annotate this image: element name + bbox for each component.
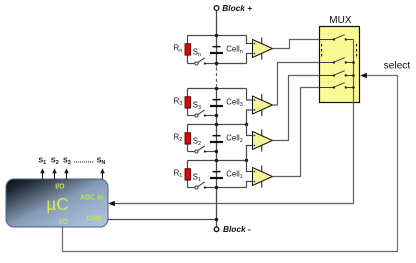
battery cell Celln plates [213, 46, 221, 48]
wire op-amp 3 - input tap down to next group top node [247, 110, 253, 125]
op-amp U1 buffer amplifier [253, 166, 273, 188]
svg-text:Block -: Block - [223, 224, 251, 234]
wire group 3 top bus [188, 88, 247, 90]
wire op-amp 1 - input tap from group bottom bus [247, 182, 253, 188]
battery cell Cell3 plates [213, 99, 221, 101]
node junction dots on MUX output line [352, 61, 355, 64]
microcontroller uC block [6, 179, 108, 227]
svg-text:I/O: I/O [59, 219, 69, 226]
svg-text:Block +: Block + [222, 3, 252, 13]
svg-text:µC: µC [46, 194, 68, 214]
wire group 1 top bus [188, 160, 247, 162]
wire op-amp n - input tap from group bottom bus [247, 54, 253, 64]
wire center stack solid lower part [216, 87, 218, 227]
label SN with up arrow [97, 155, 106, 179]
svg-text:select: select [384, 60, 411, 71]
battery cell Cell1 plates [213, 171, 221, 173]
resistor R1 [187, 161, 189, 188]
node junction dot on center line (bottom) [215, 150, 218, 153]
wire op-amp 2 - input tap down to next group top node [247, 146, 253, 161]
node junction dot on center line (top) [215, 159, 218, 162]
svg-text:GND: GND [87, 215, 103, 222]
op-amp U3 buffer amplifier [253, 94, 273, 116]
arrow select arrowhead into MUX [360, 73, 367, 78]
wire MUX dashed continuation marks [321, 44, 323, 58]
switch S3 [188, 115, 195, 117]
switch MUX row4 [320, 83, 354, 89]
MUX block [320, 15, 360, 103]
svg-text:ADC in: ADC in [80, 195, 103, 202]
node Block - terminal [214, 224, 251, 234]
wire center stack solid upper part [216, 36, 218, 67]
resistor Rn [187, 36, 189, 64]
arrow ADC in arrowhead [108, 201, 115, 206]
resistor R3 [187, 89, 189, 116]
switch S2 [188, 151, 195, 153]
node junction dot where - tap meets lower group top bus [245, 159, 248, 162]
wire group n top bus [188, 35, 247, 37]
wire MUX common output down and left to ADC in [115, 40, 354, 204]
label S1 with up arrow [38, 155, 46, 179]
resistor R2 [187, 125, 189, 152]
wire op-amp 1 + input tap [247, 161, 253, 172]
svg-text:I/O: I/O [55, 184, 65, 191]
svg-text:MUX: MUX [329, 15, 352, 26]
switch Sn [188, 63, 195, 65]
battery cell Cell2 plates [213, 135, 221, 137]
node junction dot on center line (top) [215, 87, 218, 90]
wire op-amp 1 output to MUX row 4 [273, 88, 320, 177]
node junction dot where - tap meets lower group top bus [245, 123, 248, 126]
wire center stack dashed omitted-cells part [216, 68, 218, 87]
node junction dot at GND tie [215, 218, 218, 221]
node junction dot on center line (top) [215, 34, 218, 37]
wire group 2 top bus [188, 124, 247, 126]
wire op-amp 3 + input tap [247, 89, 253, 101]
switch S1 [188, 187, 195, 189]
label S3 with up arrow [63, 155, 71, 179]
node junction dot on center line (top) [215, 123, 218, 126]
wire op-amp n output to MUX row 1 [273, 40, 320, 49]
wire op-amp 2 + input tap [247, 125, 253, 136]
op-amp Un buffer amplifier [253, 38, 273, 60]
switch MUX row2 [320, 58, 354, 64]
wire Block+ down to top cell group [216, 10, 218, 35]
node junction dot on center line (bottom) [215, 186, 218, 189]
wire GND to Block- node [108, 219, 217, 221]
wire op-amp n + input tap [247, 36, 253, 44]
op-amp U2 buffer amplifier [253, 130, 273, 152]
wire op-amp 2 output to MUX row 3 [273, 76, 320, 141]
node Block + terminal [214, 3, 252, 13]
node junction dot on center line (bottom) [215, 62, 218, 65]
wire select line from uC I/O around to MUX [63, 76, 398, 252]
node junction dot on center line (bottom) [215, 114, 218, 117]
label S2 with up arrow [51, 155, 59, 179]
switch MUX row1 [320, 35, 354, 41]
svg-text:..........: .......... [74, 155, 94, 164]
wire op-amp 3 output to MUX row 2 [273, 63, 320, 106]
switch MUX row3 [320, 71, 354, 77]
